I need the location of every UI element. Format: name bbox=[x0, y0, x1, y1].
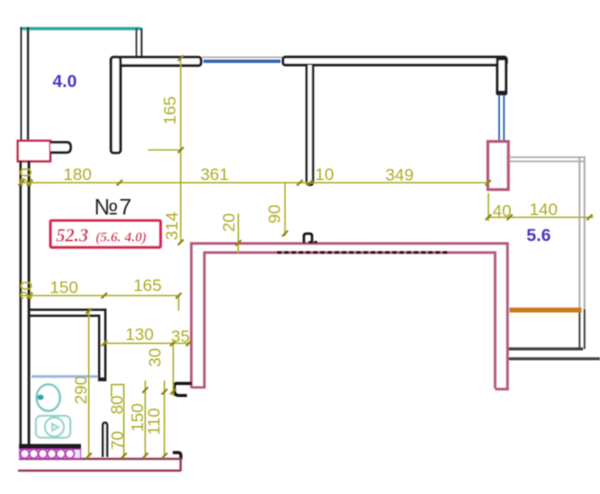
wall pink left bottom cap bbox=[191, 386, 206, 388]
door D1 balcony crimson frame bbox=[18, 141, 51, 162]
dashes on outer wall near n-mark bbox=[309, 241, 319, 243]
svg-text:№7: №7 bbox=[94, 195, 133, 220]
wall balcony right thin double line bbox=[136, 28, 138, 58]
svg-text:165: 165 bbox=[133, 276, 161, 295]
svg-text:165: 165 bbox=[161, 96, 180, 124]
svg-text:150: 150 bbox=[50, 278, 78, 297]
boundary pink bottom line 1 bbox=[19, 458, 181, 460]
balcony right gray top double line bbox=[509, 156, 585, 158]
svg-text:4.0: 4.0 bbox=[53, 71, 78, 91]
fixture sink basin bbox=[36, 416, 70, 438]
dim bracket 80 bbox=[111, 384, 125, 386]
label area red box bbox=[51, 221, 161, 248]
svg-text:10: 10 bbox=[315, 165, 334, 184]
balcony right gray side double line bbox=[579, 156, 581, 309]
column n-mark on living room wall bbox=[304, 234, 312, 244]
dim line 90 vertical bbox=[284, 183, 286, 236]
svg-text:(5.6. 4.0): (5.6. 4.0) bbox=[96, 231, 147, 246]
fixture toilet bowl bbox=[37, 384, 60, 411]
dim line 35 vertical bbox=[172, 343, 174, 396]
dim line 80-70 vertical bbox=[123, 384, 125, 457]
window W2 top blue glazing bbox=[204, 60, 281, 63]
svg-text:349: 349 bbox=[385, 165, 413, 184]
wall stub right of balcony door bbox=[51, 142, 71, 152]
svg-text:180: 180 bbox=[63, 165, 91, 184]
beam dashed line over living room bbox=[277, 251, 449, 254]
svg-text:52.3: 52.3 bbox=[56, 227, 88, 247]
svg-text:361: 361 bbox=[200, 165, 228, 184]
dim line 150 vertical bbox=[144, 381, 146, 456]
wall top right corner vertical bbox=[497, 59, 506, 93]
dim ext 165 bottom bbox=[148, 149, 182, 151]
svg-text:5.6: 5.6 bbox=[527, 225, 552, 245]
boundary pink step vertical bbox=[179, 458, 181, 471]
wall bathroom right outer bbox=[104, 309, 106, 382]
wall bathroom top line inner bbox=[29, 315, 98, 317]
radiator orange line bbox=[510, 308, 582, 313]
svg-text:20: 20 bbox=[220, 213, 239, 232]
dim ext vertical at pink column bbox=[487, 193, 489, 221]
dim line main horizontal chain bbox=[21, 182, 489, 184]
wall room L horizontal top-left bbox=[111, 57, 201, 65]
wall bathroom top line outer bbox=[29, 309, 107, 311]
wall balcony left thin double line bbox=[20, 27, 22, 141]
svg-text:40: 40 bbox=[493, 201, 512, 220]
dim line 290 vertical bbox=[88, 311, 90, 457]
column pink pilaster right bbox=[488, 142, 508, 190]
door stub bathroom (corridor jamb) bbox=[103, 423, 107, 457]
svg-text:290: 290 bbox=[71, 376, 90, 404]
dim line row3 130-35 bbox=[104, 342, 190, 344]
balcony bottom dark line 2 bbox=[509, 357, 600, 360]
dim texts horizontal bbox=[50, 165, 558, 346]
balcony bottom dark line 1 bbox=[507, 347, 583, 350]
wall top center horizontal bbox=[283, 57, 507, 65]
wall bathroom bottom black bar bbox=[19, 444, 81, 449]
dim texts rotated bbox=[16, 96, 284, 449]
wall left main inner line bbox=[28, 161, 31, 448]
fixture sink bowl circle bbox=[45, 418, 64, 437]
svg-text:140: 140 bbox=[529, 200, 557, 219]
svg-text:80: 80 bbox=[107, 395, 126, 414]
boundary pink bottom line 2 bbox=[18, 469, 181, 471]
dim ticks bbox=[19, 55, 593, 458]
bathroom divider light blue line bbox=[32, 375, 99, 378]
svg-text:130: 130 bbox=[125, 325, 153, 344]
wall living room pink outer bbox=[191, 243, 507, 390]
dim jog row2 right bbox=[178, 296, 180, 311]
svg-text:314: 314 bbox=[163, 212, 182, 240]
svg-text:20: 20 bbox=[17, 281, 36, 300]
window W2 top gray outer sill line bbox=[202, 57, 284, 58]
dim line left vertical chain bbox=[180, 58, 182, 243]
wall pink right bottom cap bbox=[495, 388, 509, 391]
svg-text:30: 30 bbox=[146, 348, 165, 367]
window W3 right blue glazing double line bbox=[498, 95, 500, 141]
wall interior thin vertical (kitchen divider) bbox=[307, 65, 313, 185]
dim line row2 150-165 bbox=[22, 295, 180, 297]
wall living room pink inner bbox=[204, 253, 495, 389]
wall cap above right window bbox=[497, 91, 507, 96]
wall bathroom right end cap bbox=[98, 378, 107, 382]
door jamb bracket upper (living room entry) bbox=[174, 383, 192, 395]
dim line 20 vertical (near n-mark) bbox=[237, 214, 239, 254]
vent shaft magenta hatched strip bbox=[20, 449, 81, 458]
wall left main outer line bbox=[19, 161, 21, 449]
svg-text:35: 35 bbox=[171, 327, 190, 346]
fixture toilet tank dot bbox=[37, 395, 43, 401]
svg-text:110: 110 bbox=[144, 408, 163, 435]
svg-text:20: 20 bbox=[16, 168, 35, 187]
svg-text:90: 90 bbox=[265, 205, 284, 224]
dim line 40-140 chain bbox=[488, 216, 593, 218]
fixture sink tap triangle bbox=[52, 423, 59, 430]
dim line 110 vertical bbox=[163, 381, 165, 456]
balcony right dark lower side bbox=[579, 309, 581, 349]
wall room L vertical top-left bbox=[111, 57, 121, 153]
door jamb bracket lower bbox=[173, 453, 181, 460]
window W1 balcony top-left teal bbox=[20, 27, 141, 30]
svg-text:70: 70 bbox=[108, 431, 127, 450]
wall bathroom right inner bbox=[98, 315, 100, 382]
